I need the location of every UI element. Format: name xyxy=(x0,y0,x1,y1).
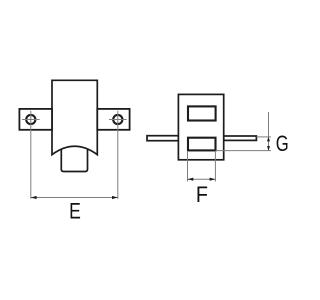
left hole crosshair xyxy=(22,111,40,129)
left mounting tab xyxy=(19,109,52,130)
label G xyxy=(276,132,289,157)
G dimension leader xyxy=(268,112,270,151)
E arrow left xyxy=(31,196,37,199)
right view: main body xyxy=(178,94,223,159)
label F xyxy=(196,183,208,207)
F dimension line xyxy=(188,178,216,180)
right view: upper window xyxy=(188,106,216,120)
label E xyxy=(69,200,81,225)
F extension line right xyxy=(214,151,216,182)
E extension line left xyxy=(30,128,32,199)
G arrow down xyxy=(267,146,270,151)
F arrow right xyxy=(210,178,216,181)
left view: lower boss rectangle xyxy=(61,149,87,172)
G arrow up xyxy=(267,137,270,142)
svg-text:G: G xyxy=(276,132,289,157)
right view: right blade shaft xyxy=(224,136,257,140)
right view: left blade shaft xyxy=(147,136,178,141)
right view: lower window xyxy=(188,138,216,151)
svg-text:F: F xyxy=(196,183,208,207)
left view: main body with arc bottom xyxy=(52,80,97,154)
G extension line top xyxy=(257,136,272,138)
F arrow left xyxy=(188,178,194,181)
right mounting tab xyxy=(97,109,129,130)
E arrow right xyxy=(112,196,118,199)
right hole xyxy=(113,115,122,124)
right hole crosshair xyxy=(109,111,127,129)
svg-text:E: E xyxy=(69,200,81,225)
F extension line left xyxy=(187,151,189,182)
E extension line right xyxy=(117,128,119,199)
left hole xyxy=(26,115,35,124)
G extension line bottom xyxy=(216,150,272,152)
E dimension line xyxy=(31,197,118,199)
